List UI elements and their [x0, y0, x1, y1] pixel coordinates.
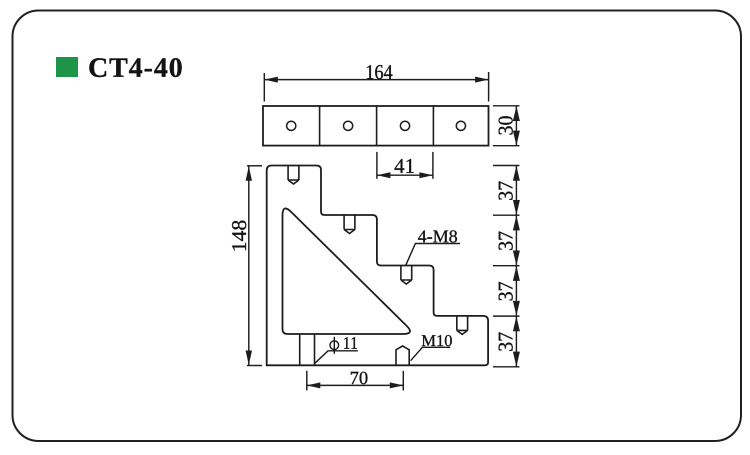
dim 37 arrowheads seg4 [513, 316, 520, 366]
label Phi11 text [344, 337, 357, 349]
slot hole Phi11 left line [299, 334, 301, 365]
bar hole 2 [344, 121, 353, 130]
label 4-M8 text [418, 230, 457, 242]
dim 30 arrowheads [513, 106, 520, 146]
dim 164 extension lines [264, 72, 488, 102]
dim 37 arrowheads seg2 [513, 215, 520, 265]
dim 41 line [377, 174, 433, 176]
dim 37 chain line [515, 166, 517, 367]
dim 37 arrowheads seg3 [513, 266, 520, 316]
tapped hole S1 [288, 166, 299, 185]
bar divider 3 [432, 106, 434, 146]
dim 70 extension lines [307, 371, 404, 391]
dim 37 arrowheads seg1 [513, 166, 520, 215]
legend green square [56, 57, 78, 77]
dim 30 text [499, 116, 513, 134]
dim 148 text [232, 221, 246, 251]
bar hole 4 [456, 121, 465, 130]
bar hole 1 [287, 121, 296, 130]
dim 37 text 1 [499, 181, 513, 199]
bracket staircase outline [267, 166, 488, 366]
label M10 text [422, 335, 452, 346]
dim 148 extension ticks [247, 166, 262, 366]
label 4-M8 leader [406, 244, 461, 266]
dim 37 text 2 [499, 231, 513, 249]
dim 164 arrowheads [264, 77, 488, 83]
dim 41 extension bars [377, 152, 433, 179]
dim 70 line [307, 384, 404, 386]
M10 stud [396, 346, 409, 365]
dim 30 extension ticks [493, 106, 520, 146]
top bar outline [263, 106, 489, 146]
dim 37 chain extension ticks [493, 166, 520, 367]
dim 41 text [395, 159, 414, 173]
slot hole Phi11 right line [314, 334, 316, 365]
bar divider 1 [319, 106, 321, 146]
tapped hole S3 [401, 266, 412, 285]
label Phi11 phi glyph [330, 337, 339, 354]
triangle cutout [283, 208, 410, 334]
dim 164 text [367, 65, 393, 79]
tapped hole S2 [344, 215, 355, 234]
title CT4-40 [89, 58, 181, 77]
dim 148 arrowheads [246, 166, 252, 365]
bar divider 2 [376, 106, 378, 146]
tapped hole S4 [457, 316, 468, 335]
dim 70 text [351, 372, 368, 384]
dim 164 line [264, 79, 488, 81]
label M10 leader [411, 347, 451, 360]
dim 37 text 4 [499, 332, 513, 350]
dim 148 line [248, 166, 250, 365]
label Phi11 leader [315, 351, 358, 364]
dim 41 arrowheads [377, 172, 433, 178]
dim 70 arrowheads [307, 382, 404, 388]
dim 37 text 3 [499, 282, 513, 300]
bar hole 3 [400, 121, 409, 130]
dim 30 line [515, 106, 517, 146]
